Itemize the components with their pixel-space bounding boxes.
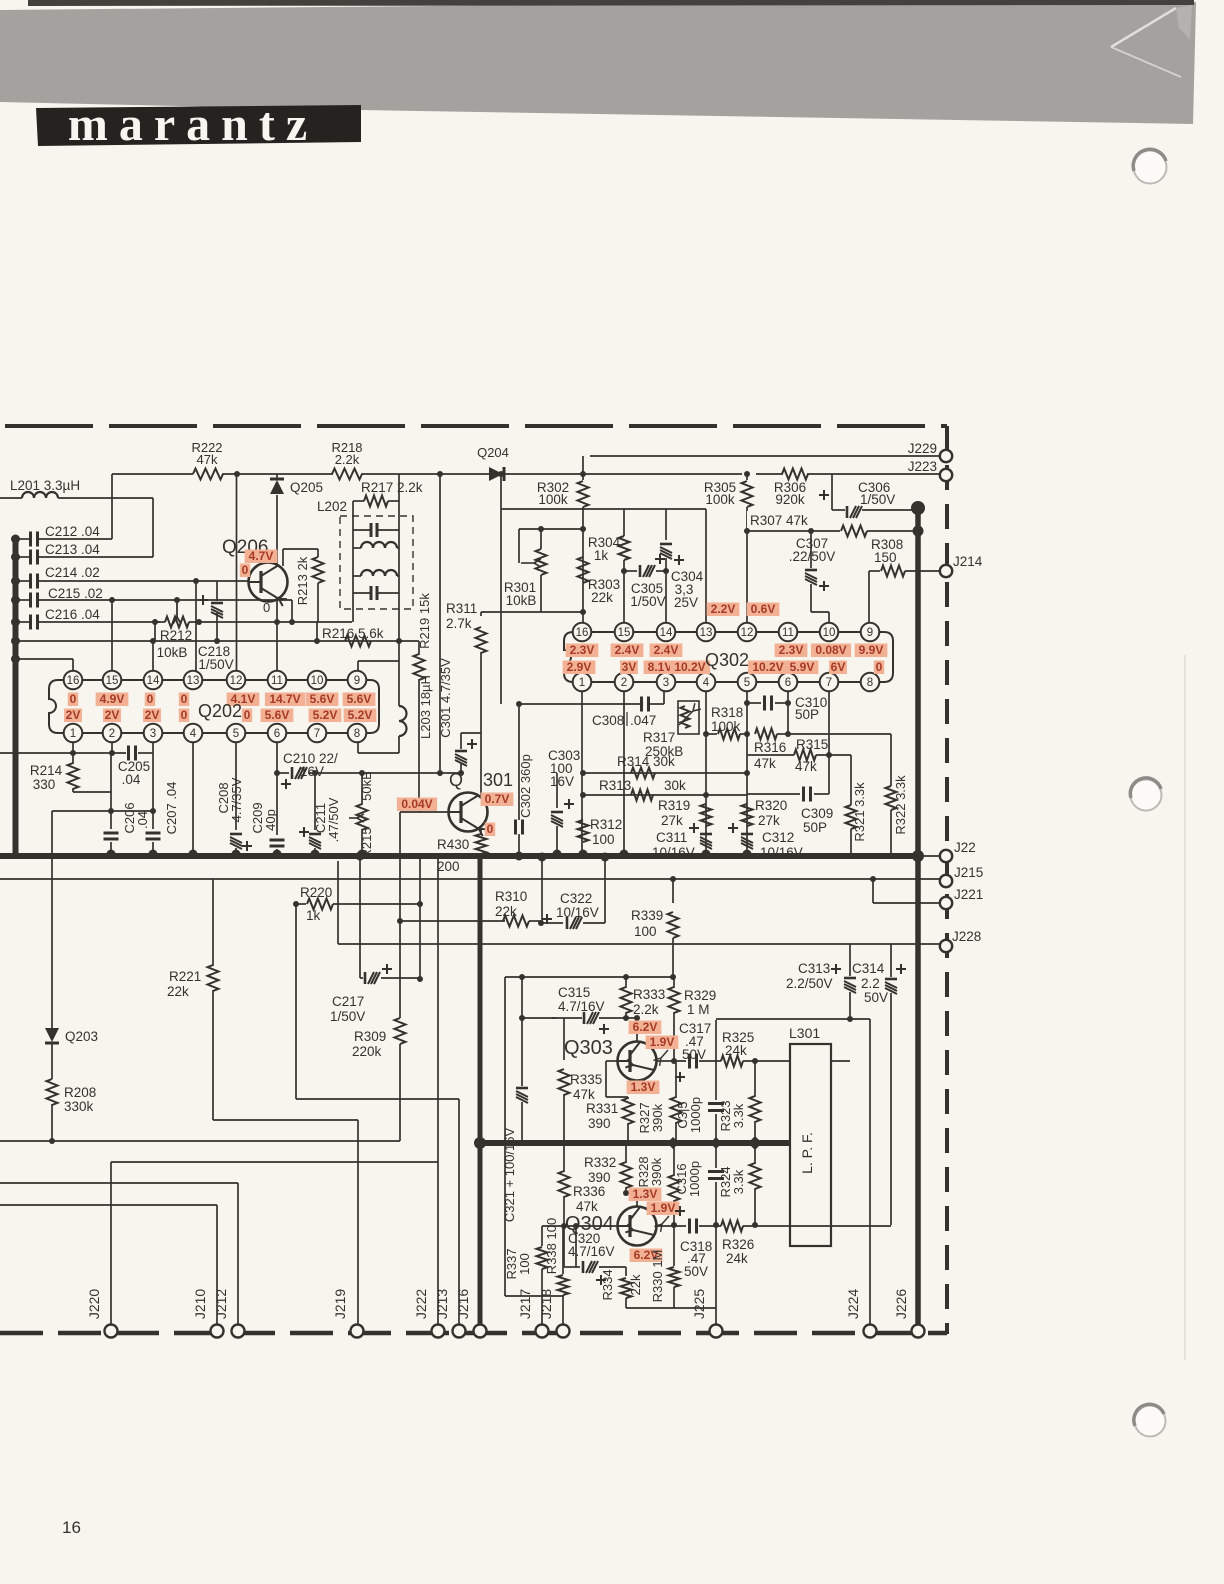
svg-text:1: 1 [579,677,585,689]
wire line773 R314 [583,772,747,774]
svg-text:4.7/16V: 4.7/16V [558,999,605,1014]
svg-text:22k: 22k [495,904,517,919]
svg-text:R330 1M: R330 1M [650,1250,665,1303]
binder hole top right [1134,151,1167,184]
Q302 pin 12 [738,623,757,642]
wire pin1 col [581,691,583,856]
svg-text:J218: J218 [538,1289,554,1320]
svg-text:16V: 16V [550,774,574,789]
svg-text:390: 390 [588,1116,611,1131]
svg-text:13: 13 [187,675,200,687]
svg-text:10.2V: 10.2V [752,660,783,674]
svg-text:5: 5 [744,677,750,689]
wire emitter line Q304 [656,1225,686,1227]
terminal J228 [940,940,952,952]
svg-text:4.7/16V: 4.7/16V [568,1244,615,1259]
wire pin13 feed Q302 [705,509,707,632]
svg-text:R221: R221 [169,969,201,984]
wire line734 right [788,733,891,735]
svg-text:390: 390 [588,1170,611,1185]
svg-text:22k: 22k [167,984,189,999]
grey header band [0,2,1196,124]
page top torn edge line [28,0,1194,6]
svg-text:C312: C312 [762,830,794,845]
svg-text:47k: 47k [576,1199,598,1214]
Q202 pin 10 [308,671,327,690]
svg-text:J222: J222 [413,1289,429,1320]
Q202 pin 3 [144,724,163,743]
diode Q204 [503,467,506,481]
svg-text:2.3V: 2.3V [570,643,595,657]
wire line509 [501,508,706,510]
wire R214 bottom [73,791,111,793]
svg-text:.047: .047 [630,713,656,728]
wire line1099 [296,1098,459,1100]
svg-text:R316: R316 [754,740,786,755]
Q302 voltages row2 [563,661,596,675]
svg-text:1000p: 1000p [687,1161,702,1197]
transistor Q304 [618,1207,657,1246]
svg-text:14.7V: 14.7V [269,692,300,706]
svg-text:2.2k: 2.2k [335,452,360,467]
svg-text:2: 2 [109,728,115,740]
wire C308 line [663,691,665,704]
Q202 pin 5 [227,724,246,743]
diode Q205 [276,474,278,479]
svg-text:J215: J215 [954,865,983,880]
svg-text:Q205: Q205 [290,480,323,495]
Q202 pin 2 [103,724,122,743]
svg-text:J216: J216 [455,1289,471,1320]
svg-text:1 M: 1 M [687,1002,710,1017]
Q302 pin 16 [573,623,592,642]
capacitor C216 [11,618,20,627]
tank2 cap [353,592,370,594]
svg-text:1/50V: 1/50V [630,594,665,609]
svg-text:0: 0 [181,692,188,706]
wire pin5 col [746,691,748,856]
svg-text:C321 + 100/16V: C321 + 100/16V [502,1128,517,1223]
svg-text:R214: R214 [30,763,63,778]
svg-text:4: 4 [703,677,710,689]
svg-text:100k: 100k [705,492,735,507]
Q202 pin 8 [348,724,367,743]
ground bus horizontal B1 [0,853,920,859]
svg-text:R208: R208 [64,1085,96,1100]
Q202 pin 4 [184,724,203,743]
wire line773 end [458,770,464,776]
Q302 pin 5 [738,673,757,692]
svg-text:3.3k: 3.3k [731,1103,746,1128]
wire J229 line [590,455,940,457]
svg-text:0.6V: 0.6V [751,602,776,616]
wire J212 drop [237,1183,239,1331]
svg-text:5.9V: 5.9V [790,660,815,674]
svg-text:R314 30k: R314 30k [617,754,675,769]
wire line1019 J224 [716,1018,870,1020]
svg-text:0: 0 [263,600,270,615]
svg-text:2.7k: 2.7k [446,616,472,631]
dashed border top [5,424,947,428]
svg-text:J225: J225 [691,1289,707,1320]
wire collector Q303 [636,1018,638,1042]
voltage 2.2V [707,603,740,617]
terminal J220 [105,1325,118,1338]
wire emitter line Q303 [656,1060,686,1062]
left vertical bus B3 [13,538,19,856]
svg-text:J226: J226 [893,1289,909,1320]
svg-text:25V: 25V [674,595,698,610]
svg-text:1/50V: 1/50V [198,657,233,672]
Q202 pin 16 [64,671,83,690]
wire pin16 feed [11,655,20,664]
svg-text:J212: J212 [213,1289,229,1320]
svg-text:R318: R318 [711,705,743,720]
Q302 pin 3 [657,673,676,692]
voltage 1.3V Q304 [629,1188,662,1202]
Q202 pin 6 [268,724,287,743]
wire line1018 [522,1017,556,1019]
terminal J22 [920,855,940,857]
wire line529 [519,528,583,530]
svg-text:J22: J22 [954,840,976,855]
svg-text:27k: 27k [661,813,683,828]
svg-text:12: 12 [230,675,243,687]
wire R216-R219 link [399,640,419,642]
svg-text:.04: .04 [122,772,141,787]
svg-text:40p: 40p [263,809,278,831]
wire J222 drop [437,858,439,1331]
svg-text:100: 100 [592,832,615,847]
svg-text:9: 9 [867,627,873,639]
svg-text:24k: 24k [725,1043,747,1058]
Q302 pin 2 [615,673,634,692]
svg-text:4: 4 [190,728,197,740]
wire line1120 [213,1119,358,1121]
wire pin4 col [705,691,707,856]
svg-text:R339: R339 [631,908,663,923]
crease lines top right [1111,8,1176,47]
terminal J218 [557,1325,570,1338]
svg-text:5.6V: 5.6V [310,692,335,706]
svg-text:0: 0 [242,563,249,577]
svg-text:Q202: Q202 [198,701,242,721]
wire C215 drop [291,600,293,622]
svg-text:8: 8 [867,677,873,689]
terminal J217 [536,1325,549,1338]
wire L203 pin8 branch [358,752,399,754]
wire C214 node [193,578,199,584]
Q202 pin 1 [64,724,83,743]
svg-text:150: 150 [874,550,897,565]
svg-text:4.7V: 4.7V [249,549,274,563]
svg-text:22k: 22k [628,1274,643,1295]
svg-text:3V: 3V [622,660,637,674]
terminal J222 [432,1325,445,1338]
svg-text:3.3k: 3.3k [731,1169,746,1194]
wire J220 drop [110,1162,112,1331]
svg-text:C216 .04: C216 .04 [45,607,100,622]
svg-text:5.6V: 5.6V [265,708,290,722]
svg-text:330k: 330k [64,1099,94,1114]
svg-text:50V: 50V [864,990,888,1005]
svg-text:marantz: marantz [68,98,318,151]
svg-text:330: 330 [33,777,56,792]
svg-text:J220: J220 [86,1289,102,1320]
capacitor C212 [11,535,20,544]
wire R310 line [400,920,505,922]
Q302 pin 4 [697,673,716,692]
svg-text:1000p: 1000p [688,1097,703,1133]
IC Q302 outline [564,632,893,682]
svg-text:10: 10 [311,675,324,687]
svg-text:13: 13 [700,627,713,639]
resistor R222 [193,469,223,480]
wire line773 left [277,772,289,774]
svg-text:J219: J219 [332,1289,348,1320]
wire W1 drop to line773 [439,474,441,773]
dashed border bottom [0,1331,947,1336]
capacitor C215 [11,596,20,605]
wire box left col [504,977,506,1296]
wire pin7 col [828,691,830,755]
terminal J213 [453,1325,466,1338]
svg-text:14: 14 [147,675,160,687]
svg-text:3: 3 [150,728,156,740]
svg-text:R216 5.6k: R216 5.6k [322,626,384,641]
svg-text:2V: 2V [145,708,160,722]
Q202 pin 9 [348,671,367,690]
svg-text:R338 100: R338 100 [544,1218,559,1274]
svg-text:2.2V: 2.2V [711,602,736,616]
page right edge shadow [1184,655,1186,1360]
wire J219 drop [357,1120,359,1331]
terminal J212 [232,1325,245,1338]
Q302 pin 1 [573,673,592,692]
svg-text:R320: R320 [755,798,787,813]
svg-text:Q302: Q302 [705,650,749,670]
svg-text:R335: R335 [570,1072,602,1087]
tank2 coil [352,568,354,622]
terminal J216 [474,1325,487,1338]
wire Q301 base line [400,811,448,813]
svg-text:.47/50V: .47/50V [326,797,341,842]
wire J213 drop [458,1099,460,1331]
svg-text:6: 6 [274,728,280,740]
Q302 pin 11 [779,623,798,642]
wire base line Q304 [542,1225,618,1227]
svg-text:R332: R332 [584,1155,616,1170]
binder hole bottom right [1135,1406,1166,1437]
voltage 0 base [240,564,250,578]
voltage 1.3V Q303 [627,1081,660,1095]
tank1 coil [353,547,361,549]
wire J224 drop [869,1019,871,1331]
Q202 pin 13 [184,671,203,690]
svg-text:2.2: 2.2 [861,976,880,991]
voltage 6.2V Q303 [629,1021,662,1035]
svg-text:0: 0 [147,692,154,706]
voltage 1.9V Q304 [647,1202,680,1216]
voltage 4.7V [245,550,278,564]
svg-text:C308: C308 [592,713,624,728]
svg-text:R312: R312 [590,817,622,832]
svg-text:2.2/50V: 2.2/50V [786,976,833,991]
voltage 0 Q301 [485,823,495,837]
terminal J224 [864,1325,877,1338]
wire L201 to C213 [152,498,154,557]
svg-text:R329: R329 [684,988,716,1003]
voltage 0.6V [747,603,780,617]
voltage 0.7V [481,793,514,807]
Q302 voltages row1 [566,644,599,658]
svg-text:0: 0 [244,708,251,722]
transistor Q301 [449,793,488,832]
svg-text:C215 .02: C215 .02 [48,586,103,601]
svg-text:50P: 50P [803,820,827,835]
dashed border right [945,426,949,1334]
wire C309 corner [828,755,830,794]
svg-text:1.9V: 1.9V [650,1035,675,1049]
svg-text:10/16V: 10/16V [652,845,695,860]
Q302 pin 13 [697,623,716,642]
binder hole middle right [1131,780,1162,811]
svg-text:11: 11 [271,675,283,687]
svg-text:16V: 16V [300,764,324,779]
svg-text:J228: J228 [952,929,981,944]
svg-text:C213 .04: C213 .04 [45,542,100,557]
wire line612 [481,611,583,613]
svg-text:R220: R220 [300,885,332,900]
capacitor C214 [11,577,20,586]
svg-text:10/16V: 10/16V [556,905,599,920]
wire pin4 to bus [192,742,194,856]
svg-text:R313: R313 [599,778,631,793]
wire col420 [419,858,421,979]
svg-text:2V: 2V [66,708,81,722]
Q202 pin 12 [227,671,246,690]
svg-text:8: 8 [354,728,360,740]
Q202 voltages row1 [68,693,78,707]
svg-text:10.2V: 10.2V [674,660,705,674]
wire J228 line [337,861,339,944]
svg-text:R311: R311 [446,601,477,616]
tank1 cap [352,501,354,568]
svg-text:0: 0 [181,708,188,722]
svg-text:50V: 50V [684,1264,708,1279]
wire R220 left drop [295,904,297,1099]
svg-text:47k: 47k [197,452,218,467]
svg-text:R319: R319 [658,798,690,813]
svg-text:1/50V: 1/50V [860,492,895,507]
wire line977 [505,976,674,978]
node dot W1-440 [437,471,443,477]
svg-text:L201 3.3µH: L201 3.3µH [10,478,80,493]
svg-text:100k: 100k [538,492,568,507]
svg-text:22k: 22k [591,590,613,605]
svg-text:8.1V: 8.1V [648,660,673,674]
svg-text:6.2V: 6.2V [633,1020,658,1034]
Q302 pin 6 [779,673,798,692]
svg-text:30k: 30k [664,778,686,793]
terminal J219 [351,1325,364,1338]
svg-text:1.3V: 1.3V [633,1187,658,1201]
svg-text:2.9V: 2.9V [567,660,592,674]
svg-text:R336: R336 [573,1184,605,1199]
svg-text:R331: R331 [586,1101,618,1116]
svg-text:3: 3 [663,677,669,689]
svg-text:L202: L202 [317,499,347,514]
wire L203 pin9 branch [358,660,399,662]
wire line1141 [0,1140,400,1142]
svg-text:47k: 47k [754,756,776,771]
wire Q206 emitter [276,599,278,622]
svg-text:200: 200 [437,859,460,874]
wire line795 R313 [583,794,747,796]
voltage 6.2V Q304 [630,1249,663,1263]
wire R212 left leg [154,622,156,641]
svg-text:10: 10 [823,627,836,639]
svg-text:R213 2k: R213 2k [295,556,310,605]
Q302 pin 9 [861,623,880,642]
svg-text:5.2V: 5.2V [348,708,373,722]
svg-text:1: 1 [70,728,76,740]
svg-text:11: 11 [782,627,794,639]
svg-text:100: 100 [634,924,657,939]
svg-text:L301: L301 [789,1025,820,1041]
wire Q203 branch [51,811,53,1028]
node dot W1-747 [744,471,750,477]
wire box bottom [505,1295,563,1297]
svg-text:9: 9 [354,675,360,687]
svg-text:1/50V: 1/50V [330,1009,365,1024]
voltage 0.04V [397,798,437,812]
marantz logo box [36,105,361,146]
svg-text:2.4V: 2.4V [654,643,679,657]
terminal J210 [211,1325,224,1338]
svg-text:2.4V: 2.4V [615,643,640,657]
svg-text:100: 100 [517,1253,532,1275]
Q202 voltages row2 [64,709,82,723]
svg-text:J221: J221 [954,887,983,902]
capacitor C218 [216,581,218,601]
IC Q202 outline [49,680,379,733]
svg-text:2.2k: 2.2k [633,1002,659,1017]
svg-text:.22/50V: .22/50V [789,549,836,564]
wire pin11 feed [276,622,278,671]
svg-text:R309: R309 [354,1029,386,1044]
svg-text:47k: 47k [573,1087,595,1102]
svg-text:10kB: 10kB [506,593,537,608]
resistor R218 [332,469,362,480]
wire col400 [399,812,401,1018]
svg-text:C301 4.7/35V: C301 4.7/35V [438,658,453,738]
svg-text:1k: 1k [594,548,609,563]
capacitor C213 [11,553,20,562]
wire line1183 [0,1182,238,1184]
Q202 pin 15 [103,671,122,690]
wire R339 column [670,876,676,882]
wire J210 drop [216,1205,218,1331]
svg-text:Q204: Q204 [477,445,509,460]
svg-text:C309: C309 [801,806,833,821]
wire W1 main top rail [112,473,193,475]
svg-text:R217 2.2k: R217 2.2k [361,480,423,495]
svg-text:0.08V: 0.08V [815,643,846,657]
transistor Q303 [618,1042,657,1081]
wire pin6 col [787,691,789,734]
svg-text:C322: C322 [560,891,592,906]
